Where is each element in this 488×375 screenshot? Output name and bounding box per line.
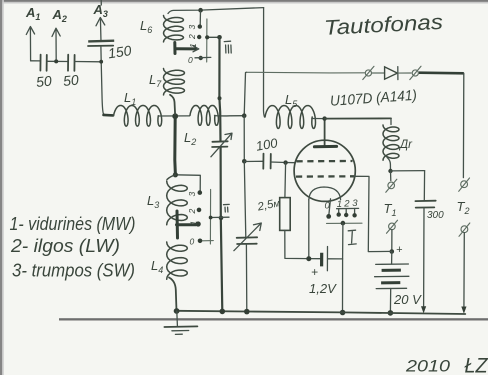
svg-text:1: 1 [188, 43, 198, 48]
switch I contact leads [339, 209, 355, 215]
terminal T2 upper (circle-slash) [459, 178, 470, 191]
battery 1,2V left lead [309, 258, 320, 260]
node A3 wire junction [99, 60, 103, 64]
capacitor 100 plates [263, 154, 271, 169]
switch II contact 2 [197, 208, 202, 213]
switch I wiper bar [327, 222, 363, 224]
ground lead [176, 311, 179, 326]
svg-text:1,2V: 1,2V [309, 281, 337, 296]
wire grid riser (x246) top [244, 72, 246, 115]
wire L3 top lead [167, 175, 175, 180]
node rail II [209, 216, 213, 220]
wire grid line to diode [247, 71, 365, 74]
switch II contact 0 lead [202, 240, 213, 242]
svg-text:0: 0 [190, 237, 195, 247]
node filament battery junction [306, 256, 311, 261]
wire T1 lower to battery junction [391, 230, 393, 252]
svg-text:150: 150 [107, 42, 133, 61]
wire grid2 to battery junction [354, 176, 392, 251]
switch II section label [224, 204, 230, 212]
node grid junction [283, 160, 287, 164]
capacitor 300 bottom lead to bus [423, 208, 425, 311]
node riser bus [244, 309, 250, 315]
node rail link left [205, 35, 209, 39]
inductor L2 [190, 106, 218, 126]
inductor L7 [164, 69, 185, 95]
terminal T1 lower (circle-slash) [387, 220, 398, 233]
switch II contact 0 link [211, 216, 229, 218]
capacitor 100 lead right to grid [271, 161, 295, 164]
wire top bus from L6 to corner [168, 8, 264, 14]
wire top corner down to L5 [264, 8, 265, 117]
node 300 bus arrowhead [421, 306, 426, 313]
switch III rail to main line link [207, 36, 219, 38]
svg-text:2- ilgos (LW): 2- ilgos (LW) [10, 236, 120, 256]
diode U107D triangle [385, 67, 398, 79]
choke Dr top lead [390, 118, 392, 124]
wire selector line lower to bus [221, 148, 223, 312]
switch II wiper bar to contact 1 [177, 223, 197, 226]
switch III contact 0 line [195, 56, 211, 58]
switch III pole rail [206, 19, 208, 62]
wire L2 right to grid riser [215, 115, 245, 117]
svg-text:1- vidurinės (MW): 1- vidurinės (MW) [10, 214, 136, 234]
switch II contact 3 [198, 190, 203, 195]
svg-text:3: 3 [352, 198, 358, 209]
node L1-L2-L7 junction [172, 113, 178, 119]
switch III contact 2 [197, 35, 201, 39]
switch I bracket bar [337, 207, 359, 209]
choke Dr bottom lead [387, 158, 391, 172]
resistor 2,5M body [280, 198, 291, 231]
svg-text:50: 50 [62, 71, 79, 89]
wire L1 entry stub [104, 114, 114, 117]
terminal T2 lower (circle-slash) [459, 223, 470, 236]
wire junction to contact 3 of switch II [176, 175, 201, 191]
wire selector line upper (x220) [219, 37, 220, 141]
battery 1,2V short plate [320, 253, 323, 267]
node Dr bottom junction [388, 169, 392, 173]
svg-text:1: 1 [189, 221, 199, 226]
inductor L4 [167, 242, 188, 279]
tube filament left leg [308, 200, 310, 259]
node anode junction [322, 116, 326, 120]
wiper bar switch III (contact 1) [176, 47, 196, 50]
node selector bus [220, 309, 226, 315]
node A2 junction [54, 59, 58, 63]
svg-text:ŁZ: ŁZ [465, 355, 488, 375]
node switch line bus [340, 310, 346, 316]
tube grid 2 (dashed) [296, 175, 354, 178]
variable capacitor C2a plates [212, 141, 228, 147]
wire L7 bottom down to L1 junction [170, 95, 175, 116]
wire grid riser middle [243, 116, 245, 162]
antenna A3 arrow and lead [96, 0, 105, 42]
resistor 2,5M lead top [284, 163, 287, 198]
wire L1 junction down to L3 [173, 116, 177, 175]
svg-text:3: 3 [187, 25, 197, 30]
switch III contact 0 [199, 56, 203, 60]
svg-text:Дr: Дr [398, 139, 413, 151]
tube anode lead [324, 119, 326, 147]
diode U107D bar [397, 67, 399, 80]
wire cap2 to A3 line [75, 61, 101, 63]
wire L5 to anode node [312, 117, 325, 119]
battery 1,2V right lead [328, 258, 343, 260]
antenna A2 arrow and lead [52, 28, 60, 61]
wire L1 to junction to L2 [159, 115, 190, 117]
battery 20V bottom lead to bus [389, 289, 391, 313]
inductor L3 [167, 181, 188, 225]
wire var cap C2b to bus [245, 244, 247, 311]
svg-text:+: + [396, 244, 403, 256]
tube anode plate [314, 145, 336, 148]
capacitor 300 plates [415, 201, 435, 208]
capacitor 300 top lead [423, 171, 425, 201]
wire switch I pole to bus [342, 223, 344, 312]
tube filament right leg to contact 0 [329, 199, 331, 215]
wire L4 bottom to bus [169, 278, 177, 312]
svg-text:+: + [311, 265, 318, 279]
tube envelope U1 [294, 140, 355, 201]
switch II contact 0 [198, 239, 203, 244]
svg-text:0: 0 [325, 201, 331, 212]
variable capacitor C2a arrow [211, 133, 232, 157]
switch I section label [348, 230, 356, 244]
capacitor 50 (second) plates [68, 55, 75, 71]
svg-text:2: 2 [187, 209, 197, 215]
capacitor 50 (A1 side) plates [31, 55, 47, 71]
node battery bus [388, 310, 394, 316]
switch I labels 0 1 2 3 [325, 198, 359, 212]
wire terminal to diode [372, 72, 385, 74]
svg-text:50: 50 [35, 72, 52, 90]
wire A1A2 node [47, 60, 68, 62]
svg-text:2: 2 [343, 198, 350, 209]
node top wire to contact 3 [198, 8, 203, 13]
wire Dr junction to 300 cap corner [391, 170, 425, 172]
variable capacitor C2b plates [237, 237, 257, 244]
contact 1 arrowhead switch III [193, 46, 199, 52]
terminal T1 upper lead [390, 171, 392, 181]
node L4 bus [174, 308, 180, 314]
capacitor 100 lead left [244, 160, 263, 162]
svg-text:2: 2 [187, 34, 197, 40]
wire T2 riser lower to bus [463, 233, 465, 312]
node L3 top junction [173, 172, 178, 177]
diode terminal left (circle-slash) [363, 66, 374, 79]
wire A3 cap down to L1 [101, 47, 105, 115]
wire diode to terminal right [398, 72, 411, 74]
inductor L1 [114, 106, 162, 127]
capacitor 150 plates (horizontal) [88, 41, 114, 46]
resistor 2,5M lead bottom [285, 230, 309, 258]
svg-text:2010: 2010 [405, 357, 451, 375]
choke Dr [383, 125, 399, 160]
svg-text:300: 300 [427, 210, 444, 221]
tube grid 1 (dashed) [297, 160, 353, 163]
wire riser to var cap C2b [244, 161, 246, 237]
battery 20V top lead [391, 252, 393, 265]
battery 20V plates [375, 264, 409, 289]
ground symbol [164, 326, 197, 334]
svg-text:3: 3 [187, 192, 197, 197]
switch III contact 3 [198, 24, 202, 28]
antenna A1 arrow and lead [26, 27, 34, 61]
wire anode node to Dr [325, 117, 391, 119]
node 100pF branch [242, 159, 247, 164]
diode terminal right (circle-slash) [410, 66, 421, 79]
switch I contact dots [326, 212, 356, 218]
wire diode output thick to corner [419, 71, 464, 74]
node switch I pole [341, 221, 346, 226]
switch II tap bar vertical [176, 211, 180, 238]
switch II contact 1 [196, 221, 201, 226]
node T2 bus arrowhead [461, 307, 466, 314]
node on selector line [218, 96, 222, 100]
switch III section label [224, 41, 231, 53]
svg-text:20 V: 20 V [393, 292, 422, 307]
battery 1,2V long plate [326, 247, 328, 271]
terminal T1 upper (circle-slash) [386, 179, 397, 192]
switch III contact 3 lead [199, 11, 201, 25]
wire L6 bottom to junction [173, 43, 176, 54]
node battery plus junction [390, 249, 395, 254]
inductor L6 [164, 16, 184, 42]
wire ground bus [177, 311, 466, 314]
svg-text:0: 0 [188, 55, 193, 65]
node contact0 link right [219, 216, 224, 221]
variable capacitor C2b arrow [234, 223, 261, 251]
tube filament dome [309, 187, 341, 200]
wire T2 riser upper [462, 73, 464, 177]
node L2 grid junction [242, 113, 247, 118]
switch II pole rail [209, 190, 211, 245]
inductor L5 [265, 106, 316, 129]
svg-text:3- trumpos (SW): 3- trumpos (SW) [12, 261, 135, 281]
node rail link right [217, 35, 222, 40]
